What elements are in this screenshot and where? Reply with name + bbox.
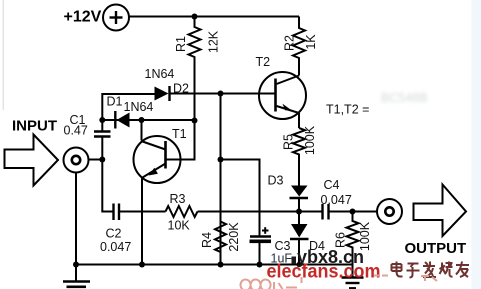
wire node X horizontal bbox=[102, 119, 194, 121]
label 0.047 (C4) bbox=[321, 193, 352, 207]
svg-text:T2: T2 bbox=[256, 55, 271, 69]
wire T2 emitter down bbox=[298, 113, 300, 128]
node D3 rail junction bbox=[296, 209, 302, 215]
wire signal rail to output bbox=[198, 211, 323, 213]
node ground left junction bbox=[73, 262, 79, 268]
label INPUT bbox=[12, 118, 57, 135]
node R1 bottom junction bbox=[192, 118, 198, 124]
label 1N64 (D1) bbox=[124, 100, 154, 114]
wire C2 to R3 bbox=[119, 211, 166, 213]
watermark chinese chars bbox=[392, 262, 470, 278]
capacitor C4 bbox=[323, 204, 378, 220]
ground main bbox=[63, 265, 90, 287]
svg-text:0.047: 0.047 bbox=[321, 193, 352, 207]
svg-text:C2: C2 bbox=[106, 227, 122, 241]
resistor R3 bbox=[166, 206, 198, 217]
label D4 bbox=[309, 239, 325, 253]
wire jack to node bbox=[89, 159, 103, 161]
wire D2 anode from node A over bbox=[102, 94, 154, 120]
transistor T1 bbox=[134, 136, 181, 183]
svg-text:220K: 220K bbox=[227, 222, 241, 252]
svg-text:OUTPUT: OUTPUT bbox=[405, 240, 467, 257]
label C4 bbox=[324, 178, 340, 192]
svg-text:+12V: +12V bbox=[64, 9, 102, 26]
label D2 bbox=[173, 82, 189, 96]
svg-text:C4: C4 bbox=[324, 178, 340, 192]
label 220K bbox=[227, 222, 241, 252]
wire jack ground drop bbox=[75, 173, 77, 265]
label R2 bbox=[283, 35, 297, 51]
resistor R5 bbox=[293, 128, 305, 186]
resistor R1 bbox=[189, 17, 201, 121]
input arrow bbox=[5, 135, 59, 186]
label 1N64 (D2) bbox=[145, 67, 175, 81]
wire T1 emitter to ground bbox=[141, 178, 143, 265]
bottom partial red glyphs bbox=[241, 276, 437, 289]
svg-text:T1,T2 =: T1,T2 = bbox=[326, 103, 369, 117]
diode D4 bbox=[290, 212, 309, 265]
svg-text:R3: R3 bbox=[170, 192, 186, 206]
left edge artifact bbox=[3, 0, 4, 110]
resistor R6 bbox=[347, 212, 359, 278]
label 1uF bbox=[271, 252, 293, 266]
label 1K bbox=[304, 34, 318, 50]
label T2 bbox=[256, 55, 271, 69]
diode D2 bbox=[155, 86, 170, 101]
wire D2 cathode to T2 base bbox=[170, 93, 276, 95]
diode D1 bbox=[115, 111, 129, 129]
transistor T2 bbox=[259, 72, 306, 119]
svg-text:T1: T1 bbox=[172, 127, 187, 141]
svg-text:R4: R4 bbox=[200, 232, 214, 248]
svg-text:R2: R2 bbox=[283, 35, 297, 51]
node jack junction bbox=[99, 157, 105, 163]
node D4 ground junction bbox=[296, 262, 301, 267]
resistor R4 bbox=[215, 222, 226, 265]
svg-text:1K: 1K bbox=[304, 34, 318, 50]
label C3 bbox=[275, 239, 291, 253]
right edge blue strip bbox=[472, 0, 481, 289]
capacitor C2 bbox=[114, 204, 120, 221]
label 0.47 bbox=[64, 124, 88, 138]
wire top rail bbox=[129, 16, 299, 18]
label D3 bbox=[268, 174, 284, 188]
output jack J2 bbox=[377, 199, 402, 224]
node divider corner junction bbox=[218, 157, 224, 163]
label 100K (R5) bbox=[303, 125, 317, 155]
node D2/divider junction bbox=[218, 91, 224, 97]
label T1,T2 = bbox=[326, 103, 369, 117]
node R4 ground junction bbox=[218, 262, 224, 268]
svg-text:elecfans.com: elecfans.com bbox=[267, 262, 381, 283]
label R4 bbox=[200, 232, 214, 248]
node top junction bbox=[192, 14, 198, 20]
svg-text:0.47: 0.47 bbox=[64, 124, 88, 138]
label +12V bbox=[64, 9, 102, 26]
svg-text:0.047: 0.047 bbox=[100, 240, 131, 254]
label D1 bbox=[107, 95, 123, 109]
svg-text:12K: 12K bbox=[207, 30, 221, 53]
label R3 bbox=[170, 192, 186, 206]
wire T1 collector bbox=[141, 120, 143, 141]
watermark ybx8.cn bbox=[292, 247, 365, 267]
wire T1 base link bbox=[166, 121, 195, 160]
diode D3 bbox=[290, 186, 309, 212]
label 100K (R6) bbox=[358, 221, 372, 251]
label C1 bbox=[70, 113, 86, 127]
resistor R2 bbox=[293, 17, 305, 76]
power source +12V bbox=[103, 5, 129, 31]
label R6 bbox=[334, 232, 348, 248]
input jack J1 bbox=[64, 148, 89, 173]
wire jack node down to C2 bbox=[102, 160, 113, 212]
label 12K bbox=[207, 30, 221, 53]
svg-text:D1: D1 bbox=[107, 95, 123, 109]
label OUTPUT bbox=[405, 240, 467, 257]
svg-text:10K: 10K bbox=[168, 219, 191, 233]
label C2 bbox=[106, 227, 122, 241]
ground R6 bbox=[342, 278, 364, 289]
node D1 anode junction bbox=[139, 117, 145, 123]
capacitor C1 bbox=[94, 120, 111, 160]
capacitor C3 electrolytic bbox=[250, 227, 272, 264]
svg-text:BC548B: BC548B bbox=[381, 91, 428, 105]
svg-text:1N64: 1N64 bbox=[124, 100, 154, 114]
node R6 rail junction bbox=[350, 209, 356, 215]
node X junction bbox=[99, 117, 105, 123]
wire divider to C3 bbox=[221, 160, 260, 237]
label R1 bbox=[174, 36, 188, 52]
svg-text:1N64: 1N64 bbox=[145, 67, 175, 81]
svg-text:R5: R5 bbox=[282, 134, 296, 150]
faint erased part number bbox=[381, 91, 428, 105]
output arrow bbox=[414, 185, 467, 237]
svg-text:R1: R1 bbox=[174, 36, 188, 52]
svg-text:INPUT: INPUT bbox=[12, 118, 57, 135]
watermark elecfans.com bbox=[267, 262, 381, 283]
svg-text:R6: R6 bbox=[334, 232, 348, 248]
ground rail bbox=[76, 264, 353, 266]
label 0.047 (C2) bbox=[100, 240, 131, 254]
label T1 bbox=[172, 127, 187, 141]
svg-text:D3: D3 bbox=[268, 174, 284, 188]
node C3 ground junction bbox=[257, 262, 263, 268]
divider wire T2 base net down bbox=[220, 94, 222, 253]
label 10K bbox=[168, 219, 191, 233]
svg-text:100K: 100K bbox=[303, 125, 317, 155]
node T1 emitter ground junction bbox=[139, 262, 145, 268]
label R5 bbox=[282, 134, 296, 150]
